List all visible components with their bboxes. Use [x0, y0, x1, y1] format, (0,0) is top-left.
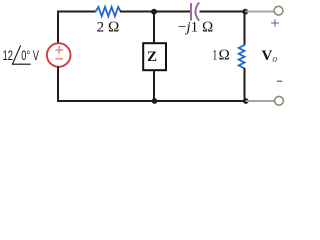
svg-text:0° V: 0° V — [21, 47, 39, 64]
impedance Z box — [143, 43, 166, 70]
label 12 angle 0 V — [3, 47, 39, 64]
node C junction dot (bottom of Z branch) — [152, 98, 158, 104]
wire right branch bottom — [244, 68, 246, 101]
wire to output terminal - (gray) — [246, 100, 275, 102]
svg-text:1: 1 — [212, 47, 217, 63]
wire left vertical (top corner to source) — [57, 11, 59, 44]
wire bottom horizontal — [57, 100, 246, 102]
source plus mark — [55, 46, 63, 54]
wire right branch top (node B down to resistor R2) — [244, 12, 246, 46]
node D junction dot (bottom right) — [243, 98, 249, 104]
node A junction dot (top of Z branch) — [151, 9, 157, 15]
wire to output terminal + (gray) — [245, 11, 274, 13]
node B junction dot (top right) — [242, 9, 248, 15]
svg-text:Z: Z — [147, 49, 157, 65]
svg-text:2 Ω: 2 Ω — [97, 20, 120, 36]
wire top-right (capacitor to node B) — [200, 11, 246, 13]
terminal circle bottom (open) — [275, 96, 284, 105]
wire top-left horizontal (source to resistor R1) — [58, 11, 96, 13]
svg-text:Ω: Ω — [218, 48, 230, 64]
resistor 1 ohm (vertical zigzag) — [239, 45, 245, 68]
svg-text:−j1 Ω: −j1 Ω — [178, 20, 213, 36]
capacitor -j1 ohm — [191, 3, 199, 21]
wire Z branch top — [153, 12, 155, 44]
minus sign output — [277, 80, 282, 82]
wire Z branch bottom — [153, 71, 155, 102]
source minus mark — [55, 58, 63, 60]
svg-text:12: 12 — [3, 47, 13, 64]
terminal circle top (open) — [274, 6, 283, 15]
wire top-middle (resistor to node A) — [120, 11, 154, 13]
angle symbol stroke — [12, 46, 30, 64]
plus sign output — [271, 19, 279, 27]
voltage source VS circle — [47, 43, 71, 67]
svg-text:Vo: Vo — [262, 48, 278, 65]
wire left vertical (source to bottom corner) — [57, 67, 59, 103]
wire top (node A to capacitor) — [154, 11, 190, 13]
resistor 2 ohm (horizontal zigzag) — [96, 7, 121, 16]
